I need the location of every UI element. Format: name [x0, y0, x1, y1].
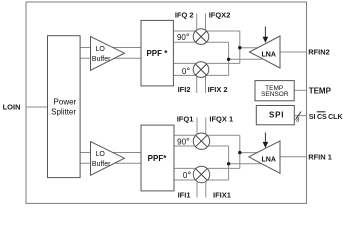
svg-text:LO: LO: [96, 46, 106, 53]
wire IFIX1 terminal: [205, 181, 207, 198]
wire splitter to LO buffer 2 (P): [80, 152, 141, 154]
gain control arrow LNA2: [264, 133, 266, 143]
wire PPF1 to mixer Q2 top: [173, 30, 239, 32]
wire RF bus P channel 2 (vertical): [239, 31, 241, 63]
wire PPF2 to mixer Q1 top: [174, 134, 240, 136]
svg-text:IFQ1: IFQ1: [177, 114, 194, 123]
wire splitter to LO buffer 1 (P): [80, 47, 141, 49]
wire LNA2 out P: [240, 152, 262, 154]
SPI box: [256, 106, 294, 125]
wire PPF2 to mixer I1 top: [174, 167, 240, 169]
wire LNA1 out P: [240, 47, 262, 49]
wire LNA1 out N: [229, 58, 262, 60]
junction dot channel 2 N: [227, 58, 230, 61]
wire IFQX2 terminal: [205, 13, 207, 30]
wire PPF1 to mixer I2 top: [173, 62, 239, 64]
wire RF bus N channel 1 (vertical): [228, 146, 230, 180]
wire IFQX1 terminal: [205, 118, 207, 135]
wire IFIX2 terminal: [205, 76, 207, 93]
junction dot channel 2 P: [238, 46, 241, 49]
svg-text:IFI2: IFI2: [178, 85, 191, 94]
mixer Q1 (90 deg, channel 1): [193, 133, 209, 149]
wire IFQ1 terminal: [196, 118, 198, 135]
svg-text:RFIN 1: RFIN 1: [308, 153, 332, 162]
wire PPF1 to mixer Q2 bottom: [173, 41, 228, 43]
svg-text:LNA: LNA: [262, 52, 276, 59]
PPF1 box (channel 2): [141, 20, 173, 86]
power splitter box: [48, 36, 81, 178]
svg-text:LOIN: LOIN: [3, 103, 21, 112]
LO buffer U2 (channel 1): [91, 142, 125, 176]
svg-text:3: 3: [296, 116, 300, 123]
LNA U4 (channel 1): [249, 141, 280, 173]
wire splitter to LO buffer 1 (N): [80, 57, 141, 59]
svg-text:RFIN2: RFIN2: [308, 48, 330, 57]
wire IFQ2 terminal: [196, 13, 198, 30]
junction dot channel 1 N: [227, 162, 230, 165]
svg-text:SPI: SPI: [269, 110, 284, 119]
svg-text:0°: 0°: [182, 66, 190, 77]
wire RF bus P channel 1 (vertical): [239, 135, 241, 168]
svg-text:IFI1: IFI1: [178, 191, 191, 200]
wire IFI1 terminal: [196, 181, 198, 198]
svg-text:SI CS CLK: SI CS CLK: [309, 114, 343, 121]
LO buffer U1 (channel 2): [91, 37, 125, 71]
wire PPF2 to mixer Q1 bottom: [174, 145, 229, 147]
PPF2 box (channel 1): [141, 125, 174, 191]
wire RFIN2: [280, 51, 307, 53]
svg-text:Buffer: Buffer: [92, 161, 111, 168]
wire TEMP: [294, 89, 306, 91]
svg-text:IFQX 1: IFQX 1: [209, 114, 233, 123]
gain control arrow LNA1: [264, 27, 266, 38]
svg-text:IFIX 2: IFIX 2: [208, 85, 228, 94]
wire PPF2 to mixer I1 bottom: [174, 179, 229, 181]
wire RFIN1: [280, 156, 307, 158]
wire LOIN input: [26, 106, 48, 108]
wire LNA2 out N: [229, 163, 262, 165]
svg-text:IFIX1: IFIX1: [213, 191, 231, 200]
svg-text:TEMP: TEMP: [309, 87, 332, 96]
chip outer border: [26, 2, 307, 203]
svg-text:PPF *: PPF *: [146, 49, 168, 58]
bus slash mark: [296, 112, 302, 120]
svg-text:90°: 90°: [177, 136, 190, 147]
wire IFI2 terminal: [196, 76, 198, 93]
temp sensor box: [255, 81, 294, 101]
svg-text:PPF*: PPF*: [148, 154, 168, 163]
wire PPF1 to mixer I2 bottom: [173, 74, 228, 76]
overline on CS: [317, 111, 326, 113]
svg-text:Buffer: Buffer: [92, 56, 111, 63]
LNA U3 (channel 2): [250, 36, 281, 68]
svg-text:IFQ 2: IFQ 2: [175, 11, 194, 20]
mixer I2 (0 deg, channel 2): [193, 62, 209, 78]
svg-text:LO: LO: [96, 151, 106, 158]
mixer I1 (0 deg, channel 1): [193, 166, 209, 182]
mixer Q2 (90 deg, channel 2): [193, 29, 209, 45]
svg-text:Splitter: Splitter: [51, 108, 76, 117]
svg-text:IFQX2: IFQX2: [209, 11, 231, 20]
junction dot channel 1 P: [238, 151, 241, 154]
svg-text:Power: Power: [54, 97, 77, 106]
svg-text:LNA: LNA: [262, 157, 276, 164]
svg-text:SENSOR: SENSOR: [261, 91, 289, 98]
wire splitter to LO buffer 2 (N): [80, 162, 141, 164]
wire RF bus N channel 2 (vertical): [228, 42, 230, 75]
svg-text:90°: 90°: [177, 32, 190, 43]
svg-text:0°: 0°: [183, 170, 191, 181]
wire SPI bus: [294, 115, 306, 117]
